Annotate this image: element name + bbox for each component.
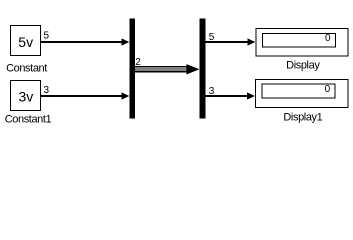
demux block (vertical bar) — [200, 19, 206, 119]
svg-text:Constant1: Constant1 — [5, 113, 52, 125]
wire Demux output 2 to Display1 — [205, 92, 255, 99]
wire Constant to Mux input 1 — [41, 38, 129, 45]
svg-text:5v: 5v — [18, 34, 33, 50]
wire Demux output 1 to Display — [205, 38, 255, 45]
svg-text:Display: Display — [286, 59, 320, 71]
constant block Constant1 (3v) — [11, 81, 41, 111]
svg-text:3: 3 — [44, 85, 50, 96]
display block Display — [256, 29, 348, 57]
display block Display1 — [256, 79, 349, 107]
svg-text:2: 2 — [135, 57, 141, 68]
constant block Constant (5v) — [11, 26, 41, 56]
svg-text:3: 3 — [209, 86, 215, 97]
svg-text:Display1: Display1 — [283, 111, 322, 123]
svg-text:5: 5 — [44, 31, 50, 42]
mux block (vertical bar) — [129, 19, 135, 119]
svg-text:Constant: Constant — [6, 63, 47, 75]
svg-text:0: 0 — [325, 84, 331, 95]
vector wire Mux to Demux (width 2) — [135, 64, 199, 74]
wire Constant1 to Mux input 2 — [41, 92, 129, 99]
svg-text:0: 0 — [325, 33, 331, 44]
svg-text:3v: 3v — [19, 89, 34, 105]
svg-text:5: 5 — [209, 32, 215, 43]
